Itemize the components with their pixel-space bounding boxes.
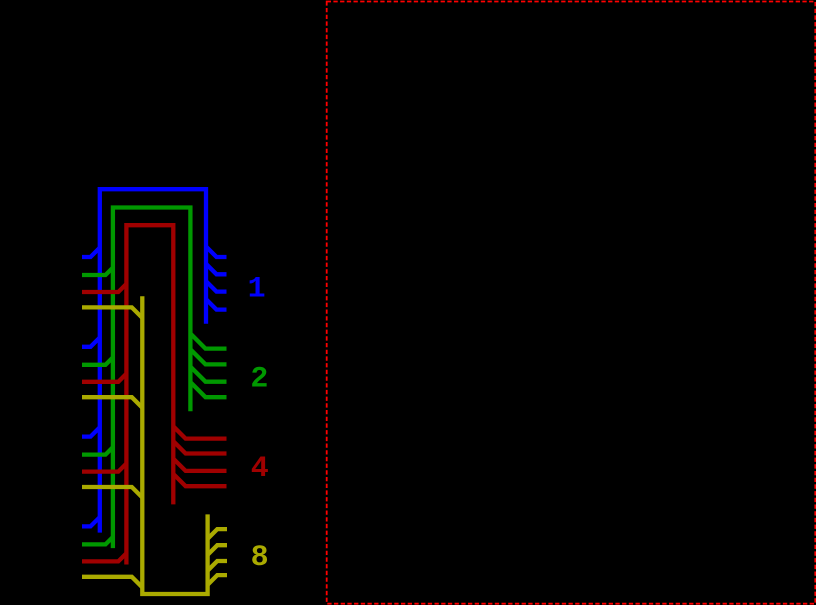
winding 8 tap wire 4 (left) bbox=[82, 577, 142, 588]
winding 8 turn hook 3 (right) bbox=[208, 561, 227, 571]
winding 4 loop (dark red U) bbox=[126, 225, 173, 564]
winding 4 tap wire 4 (left) bbox=[82, 553, 126, 561]
winding 4 tap wire 2 (left) bbox=[82, 374, 126, 382]
svg-text:8: 8 bbox=[251, 541, 269, 575]
winding 1 tap wire 2 (left) bbox=[82, 338, 100, 347]
winding 8 tap wire 2 (left) bbox=[82, 397, 142, 408]
winding 8 tap wire 3 (left) bbox=[82, 487, 142, 498]
svg-text:4: 4 bbox=[251, 452, 269, 486]
winding 2 turn hook 1 (right) bbox=[190, 334, 226, 349]
winding 4 turn hook 2 (right) bbox=[173, 441, 226, 453]
winding 2 tap wire 3 (left) bbox=[82, 447, 113, 454]
winding 1 tap wire 3 (left) bbox=[82, 427, 100, 436]
winding 2 loop (green U) bbox=[113, 208, 190, 549]
winding 1 turn hook 1 (right) bbox=[206, 247, 227, 258]
winding 1 tap wire 4 (left) bbox=[82, 517, 100, 526]
winding 8 turn hook 4 (right) bbox=[208, 575, 227, 585]
winding 8 turn hook 1 (right) bbox=[208, 529, 227, 539]
winding 1 tap wire 1 (left) bbox=[82, 248, 100, 257]
winding 4 tap wire 1 (left) bbox=[82, 284, 126, 292]
winding 2 tap wire 2 (left) bbox=[82, 357, 113, 364]
winding 8 turn hook 2 (right) bbox=[208, 545, 227, 555]
winding 1 loop (blue U) bbox=[100, 189, 206, 532]
winding 8 loop (olive U) bbox=[142, 296, 207, 594]
winding 4 turn hook 3 (right) bbox=[173, 459, 226, 471]
winding 2 tap wire 1 (left) bbox=[82, 268, 113, 275]
winding 4 tap wire 3 (left) bbox=[82, 464, 126, 472]
winding 1 turn hook 4 (right) bbox=[206, 299, 227, 310]
winding 2 turn hook 3 (right) bbox=[190, 367, 226, 382]
winding 2 turn hook 4 (right) bbox=[190, 382, 226, 397]
winding 1 turn hook 2 (right) bbox=[206, 264, 227, 275]
placeholder frame (red dashed rectangle) bbox=[327, 2, 816, 604]
winding 4 turn hook 1 (right) bbox=[173, 426, 226, 438]
winding 2 tap wire 4 (left) bbox=[82, 537, 113, 544]
winding 2 turn hook 2 (right) bbox=[190, 349, 226, 364]
winding 8 tap wire 1 (left) bbox=[82, 307, 142, 318]
svg-text:1: 1 bbox=[248, 272, 266, 306]
winding 1 turn hook 3 (right) bbox=[206, 281, 227, 292]
svg-text:2: 2 bbox=[250, 363, 268, 397]
winding 4 turn hook 4 (right) bbox=[173, 474, 226, 486]
